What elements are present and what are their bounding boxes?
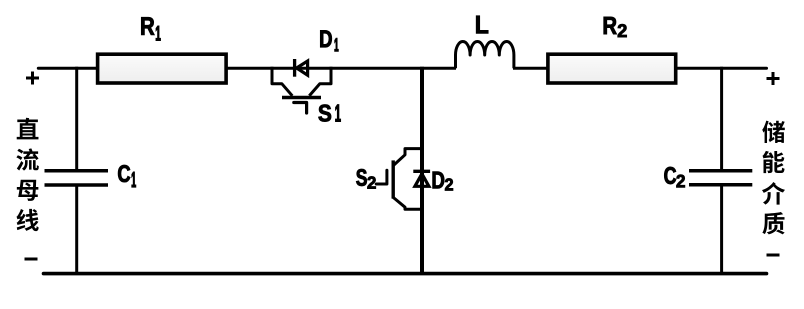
- transistor S2 gate: [376, 170, 387, 184]
- transistor S1 emitter lead: [309, 67, 331, 96]
- wire right branch lower: [720, 185, 723, 274]
- label D1: [320, 30, 338, 51]
- wire left branch upper: [75, 67, 78, 171]
- label R2: [604, 17, 627, 37]
- resistor R1: [98, 54, 227, 83]
- inductor L: [456, 41, 514, 68]
- transistor S1 collector lead: [272, 67, 292, 96]
- wire R1 to inductor (through D1 node): [225, 67, 456, 70]
- label S1: [319, 105, 341, 122]
- label L: [476, 16, 488, 33]
- label S2: [356, 169, 375, 188]
- label D2: [433, 172, 453, 191]
- wire bottom bus: [44, 272, 767, 276]
- transistor S1 channel bar: [282, 96, 321, 99]
- wire right branch upper: [720, 67, 723, 171]
- text storage char chu: [762, 121, 785, 143]
- text storage char zhi2: [762, 212, 784, 234]
- wire R2 to right terminal: [674, 67, 767, 70]
- text storage char jie: [762, 182, 785, 205]
- terminal minus right: [767, 254, 780, 257]
- label R1: [141, 17, 160, 40]
- transistor S2 emitter lead: [393, 197, 422, 209]
- terminal plus right: [767, 72, 780, 85]
- diode D1 cathode bar: [293, 59, 296, 77]
- wire left branch lower: [75, 185, 78, 274]
- wire middle branch: [420, 67, 424, 274]
- text storage char neng: [762, 151, 784, 173]
- label C1: [118, 165, 136, 187]
- capacitor C1: [45, 171, 109, 185]
- terminal minus left: [25, 258, 38, 261]
- diode D2 triangle: [415, 174, 429, 187]
- capacitor C2: [689, 171, 752, 185]
- text DC-bus char xian: [16, 209, 38, 231]
- text DC-bus char mu: [17, 180, 39, 201]
- diode D1 triangle: [297, 61, 308, 75]
- wire inductor to R2: [513, 67, 549, 70]
- transistor S1 gate: [294, 103, 307, 114]
- text DC-bus char zhi: [17, 118, 39, 140]
- transistor S2 collector lead: [393, 149, 422, 166]
- label C2: [664, 167, 684, 187]
- diode D2 cathode bar: [413, 170, 430, 173]
- text DC-bus char liu: [16, 148, 38, 170]
- transistor S2 channel bar: [392, 160, 395, 198]
- terminal plus left: [26, 72, 39, 85]
- resistor R2: [548, 54, 676, 83]
- wire top bus left segment: [38, 67, 99, 70]
